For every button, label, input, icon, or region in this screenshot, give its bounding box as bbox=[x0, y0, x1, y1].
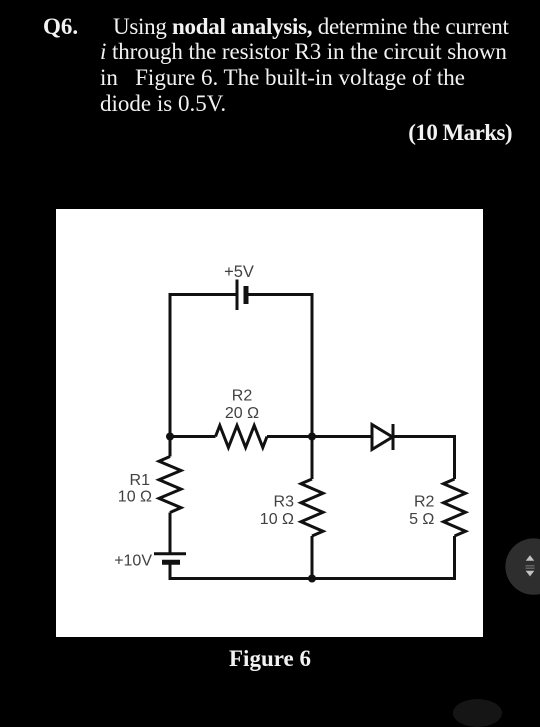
wire left vertical: node A to R1 bbox=[169, 437, 172, 457]
svg-text:20 Ω: 20 Ω bbox=[225, 405, 259, 422]
up arrow bbox=[526, 555, 535, 561]
wire diode to top-right of right branch bbox=[393, 435, 455, 438]
question text line 1 bbox=[43, 15, 78, 38]
wire R1 to battery bbox=[169, 513, 172, 554]
wire node B to diode bbox=[312, 435, 372, 438]
diode D1 triangle bbox=[372, 425, 393, 450]
wire middle vertical (node B to R3) bbox=[311, 437, 314, 480]
middle bar line 1 bbox=[526, 565, 535, 566]
wire R2 to node B bbox=[267, 435, 312, 438]
node A junction dot bbox=[166, 433, 174, 441]
question text line 2 bbox=[100, 40, 507, 63]
wire middle vertical upper (top-right corner down to mid node) bbox=[311, 293, 314, 437]
node B junction dot bbox=[308, 433, 316, 441]
wire top horizontal left segment to battery bbox=[169, 293, 238, 296]
down arrow bbox=[526, 571, 535, 577]
wire top-left: left vertical from top corner down to middle node bbox=[169, 295, 172, 437]
wire right vertical upper bbox=[453, 435, 456, 479]
middle bar line 2 bbox=[526, 568, 535, 569]
wire R3 to bottom node bbox=[311, 536, 314, 579]
resistor R3 10ohm vertical zigzag bbox=[301, 479, 323, 536]
svg-text:R1: R1 bbox=[130, 472, 151, 489]
diode D1 cathode bar bbox=[392, 424, 395, 450]
svg-text:+10V: +10V bbox=[114, 553, 152, 570]
question text line 3 bbox=[100, 66, 465, 89]
resistor R2 20ohm horizontal zigzag bbox=[216, 426, 268, 448]
marks line bbox=[408, 121, 512, 144]
scroll widget circle bbox=[500, 533, 540, 603]
resistor R1 10ohm vertical zigzag bbox=[159, 457, 181, 513]
battery V2 +10V short thick plate bbox=[162, 560, 180, 565]
battery V1 +5V short thick plate bbox=[244, 286, 249, 304]
svg-text:10 Ω: 10 Ω bbox=[118, 489, 152, 506]
wire right vertical lower bbox=[453, 536, 456, 580]
svg-text:10 Ω: 10 Ω bbox=[260, 511, 294, 528]
svg-text:R2: R2 bbox=[414, 494, 435, 511]
bottom partial ellipse bbox=[453, 699, 502, 727]
question text line 4 bbox=[100, 92, 226, 115]
svg-text:+5V: +5V bbox=[224, 263, 254, 281]
wire middle horizontal: node A to R2 bbox=[170, 435, 216, 438]
svg-text:R3: R3 bbox=[274, 494, 295, 511]
resistor R2 5ohm vertical zigzag bbox=[444, 479, 466, 536]
svg-text:R2: R2 bbox=[232, 388, 253, 405]
bottom node junction dot bbox=[308, 575, 316, 583]
figure caption bbox=[0, 647, 540, 670]
bottom wire bbox=[169, 577, 457, 580]
wire battery to bottom corner bbox=[169, 562, 172, 578]
wire top horizontal right segment from battery to top-right corner bbox=[247, 293, 312, 296]
battery V2 +10V long plate bbox=[154, 552, 186, 555]
svg-text:5 Ω: 5 Ω bbox=[409, 511, 434, 528]
battery V1 +5V long plate bbox=[236, 280, 239, 311]
white schematic panel bbox=[56, 209, 483, 637]
